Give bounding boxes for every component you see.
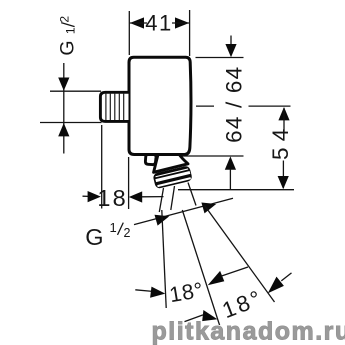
angle dim 1 text 18deg [168,278,206,307]
angle dim 2 right tail [281,273,291,281]
extension line top edge (64/64) [196,57,244,59]
angle dim 2 right arrow [268,277,284,294]
hose stub right [171,186,175,210]
54 dim line lower [282,161,284,189]
dimension 41 arrow left [130,17,144,28]
angle dim 1 right arrow [208,271,225,285]
extension line 41 right [189,10,191,56]
extension line 54 top left segment [196,105,214,107]
54 up arrow [278,107,289,120]
svg-text:G: G [85,224,103,250]
wall outlet body [129,57,191,154]
64/64 upper stub [230,36,232,47]
ray L2 36 degrees [205,206,275,303]
angle dim 1 right tail [221,267,248,276]
extension line 18 left [101,125,103,209]
svg-text:1: 1 [110,220,117,235]
angle dim 2 left arrow [202,310,217,321]
angle dim 1 left tail [135,290,152,292]
svg-text:5 4: 5 4 [268,129,293,160]
extension line 54 bottom [178,189,294,191]
dimension text 64/64 (rotated) [222,66,247,143]
extension line 54 top right segment [249,105,291,107]
ray L0 vertical hose axis [162,210,166,308]
dimension 41 arrow right [175,17,189,28]
label G1/2 bottom [85,220,130,250]
svg-text:2: 2 [57,16,71,23]
G1/2 top dimension line [63,63,65,154]
outlet foot tab [145,155,156,165]
svg-text:2: 2 [124,226,131,240]
64/64 down arrow [225,44,236,57]
54 dim line upper [283,108,285,132]
18 left arrow [83,195,90,197]
G1/2 down arrow [58,78,69,91]
extension line 41 left [128,11,130,55]
angle dim 2 text 18deg [219,285,267,323]
outlet cone [154,155,188,173]
thread lines [106,94,124,121]
label G1/2 top (rotated) [57,16,79,56]
svg-text:plitkanadom.ru: plitkanadom.ru [152,317,345,345]
leader arrowhead 2 [201,203,216,214]
extension line mid (64/64 bottom) [145,155,244,157]
G1/2 top extension line upper [50,90,101,92]
svg-text:1: 1 [64,27,78,34]
hose stub left [159,188,163,212]
G1/2 top extension line lower [40,122,102,124]
angle dim 1 left arrow [150,287,165,298]
nut edge stub [188,183,196,206]
svg-text:41: 41 [145,10,172,35]
svg-text:64 / 64: 64 / 64 [222,66,247,143]
dimension text 54 (rotated) [268,129,293,160]
leader line with double arrows [134,198,233,224]
G1/2 up arrow [58,123,69,136]
64/64 lower stub [229,169,231,190]
54 down arrow [278,176,289,189]
svg-text:18°: 18° [168,278,206,307]
svg-text:G: G [57,40,79,55]
ray L1 18 degrees [182,210,220,328]
threaded inlet nipple G1/2 [100,92,128,121]
hose nut [152,165,192,189]
svg-text:18: 18 [97,185,128,211]
extension line 18 right [128,157,130,209]
angle dim 2 left tail [185,315,204,322]
64/64 up arrow [225,156,236,169]
18 right arrow [129,191,142,202]
leader arrowhead 1 [155,215,170,226]
